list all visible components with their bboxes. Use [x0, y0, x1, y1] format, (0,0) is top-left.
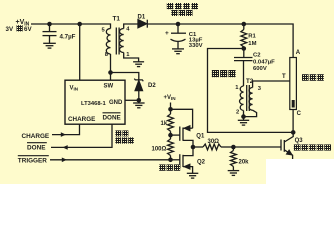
flash lamp tube	[290, 58, 297, 110]
svg-text:6V: 6V	[24, 26, 32, 33]
wire to Q3 gate	[233, 146, 281, 148]
svg-text:+VIN: +VIN	[164, 95, 177, 101]
wire top rail left	[31, 24, 111, 29]
wire T2 secondary bottom to pin2 node	[244, 110, 257, 116]
capacitor C2 0.047uF 600V	[243, 49, 245, 58]
wire top rail right of D1	[147, 24, 293, 58]
zener diode D2	[134, 79, 143, 82]
svg-text:SW: SW	[104, 84, 114, 90]
svg-text:1M: 1M	[248, 41, 256, 47]
wire GND pin to ground	[125, 99, 139, 101]
svg-text:C: C	[297, 111, 302, 117]
node junction SW/D2	[108, 70, 113, 75]
svg-text:DONE: DONE	[103, 115, 121, 122]
T2 core	[246, 85, 248, 111]
resistor 100ohm	[170, 135, 172, 139]
wire T1 pin1 to ground	[124, 53, 139, 62]
resistor R1 1M	[243, 24, 245, 30]
svg-text:DONE: DONE	[27, 145, 46, 152]
T2 primary winding pin1-pin2	[240, 86, 244, 111]
svg-text:T: T	[282, 74, 286, 80]
svg-text:Q2: Q2	[197, 160, 206, 166]
diode D1	[138, 20, 147, 28]
svg-text:0.047µF: 0.047µF	[253, 59, 275, 65]
wire lamp cathode down	[292, 110, 294, 133]
svg-text:3V: 3V	[6, 26, 14, 33]
capacitor 4.7uF	[49, 24, 51, 32]
ground under D2	[138, 100, 140, 103]
svg-text:GND: GND	[109, 100, 123, 106]
T1 core	[115, 28, 117, 55]
ground under T2	[238, 119, 249, 121]
node junction 20k	[231, 145, 236, 150]
svg-text:R1: R1	[248, 34, 256, 40]
decorative white box (not labelled as component)	[266, 159, 334, 184]
capacitor C1 13uF 330V	[177, 24, 179, 33]
svg-text:100Ω: 100Ω	[152, 146, 167, 152]
wire T2 pin2	[243, 111, 245, 121]
node junction Q2 gate / trigger	[168, 158, 173, 163]
ground under 4.7uF	[43, 42, 56, 44]
label high voltage switch (chinese)	[294, 144, 301, 150]
transistor Q3 high voltage switch	[280, 140, 282, 151]
svg-text:330V: 330V	[189, 43, 203, 49]
wire TRIGGER input	[50, 159, 171, 161]
op-amp U1 LT3468-1 box	[65, 80, 125, 124]
T2 secondary winding pin3	[249, 88, 253, 111]
node junction GND/D2	[137, 98, 142, 103]
svg-text:Q3: Q3	[295, 138, 304, 144]
svg-text:C2: C2	[253, 53, 261, 59]
wire CHARGE input	[52, 124, 80, 134]
transistor Q2 NMOS	[171, 159, 180, 161]
wire DONE output	[51, 124, 112, 147]
label flash lamp (chinese)	[302, 74, 309, 81]
transistor Q1 PMOS	[171, 134, 180, 136]
node junction C1	[176, 22, 181, 27]
T1 secondary winding pin4-pin1	[120, 29, 124, 53]
svg-text:Q1: Q1	[196, 134, 205, 140]
resistor 20k	[232, 147, 234, 151]
svg-text:4.7µF: 4.7µF	[60, 34, 76, 41]
wire SW node to D2	[111, 73, 139, 80]
node junction C4.7uF	[47, 22, 52, 27]
ground under Q2	[187, 172, 199, 174]
svg-text:VIN: VIN	[70, 86, 79, 92]
ground under T1 pin1	[133, 61, 144, 63]
node junction driver output	[191, 145, 196, 150]
node junction VIN pin	[77, 22, 82, 27]
node junction T2 pin2	[241, 114, 246, 119]
svg-text:600V: 600V	[253, 66, 267, 72]
svg-text:+: +	[165, 30, 169, 37]
wire VIN pin	[79, 24, 81, 80]
node junction Q1 gate	[168, 133, 173, 138]
svg-text:CHARGE: CHARGE	[22, 133, 50, 140]
node junction R1 top	[242, 22, 247, 27]
DONE pin overline	[103, 112, 121, 114]
svg-text:TRIGGER: TRIGGER	[18, 158, 47, 165]
wire T1 pin4 to D1	[124, 24, 138, 29]
ground under 20k	[228, 170, 240, 172]
svg-text:LT3468-1: LT3468-1	[81, 101, 106, 107]
wire to Q1 source	[171, 109, 193, 128]
svg-text:T1: T1	[113, 16, 121, 23]
node junction Q3 collector / lamp cathode	[291, 130, 296, 135]
label flash storage capacitor (chinese)	[167, 3, 174, 9]
label trigger (chinese)	[212, 70, 219, 77]
svg-text:D2: D2	[148, 83, 156, 89]
resistor 30ohm	[193, 146, 203, 148]
svg-text:CHARGE: CHARGE	[68, 116, 95, 123]
svg-text:30Ω: 30Ω	[208, 139, 220, 145]
label capacitor charger (chinese)	[115, 130, 121, 136]
wire T2 pin3 to lamp trigger	[253, 81, 290, 88]
wire SW pin to T1 pin8	[110, 54, 112, 80]
wire R1-C2 node to high voltage switch collector	[208, 49, 294, 133]
svg-text:A: A	[296, 50, 301, 56]
node junction R1/C2	[242, 46, 247, 51]
svg-text:D1: D1	[138, 14, 146, 20]
resistor 1k	[170, 109, 172, 114]
svg-text:2: 2	[236, 110, 239, 116]
ground under C1	[172, 48, 184, 50]
svg-text:1k: 1k	[161, 121, 168, 127]
svg-text:20k: 20k	[239, 160, 250, 166]
T1 primary winding pin5-pin8	[106, 29, 110, 55]
